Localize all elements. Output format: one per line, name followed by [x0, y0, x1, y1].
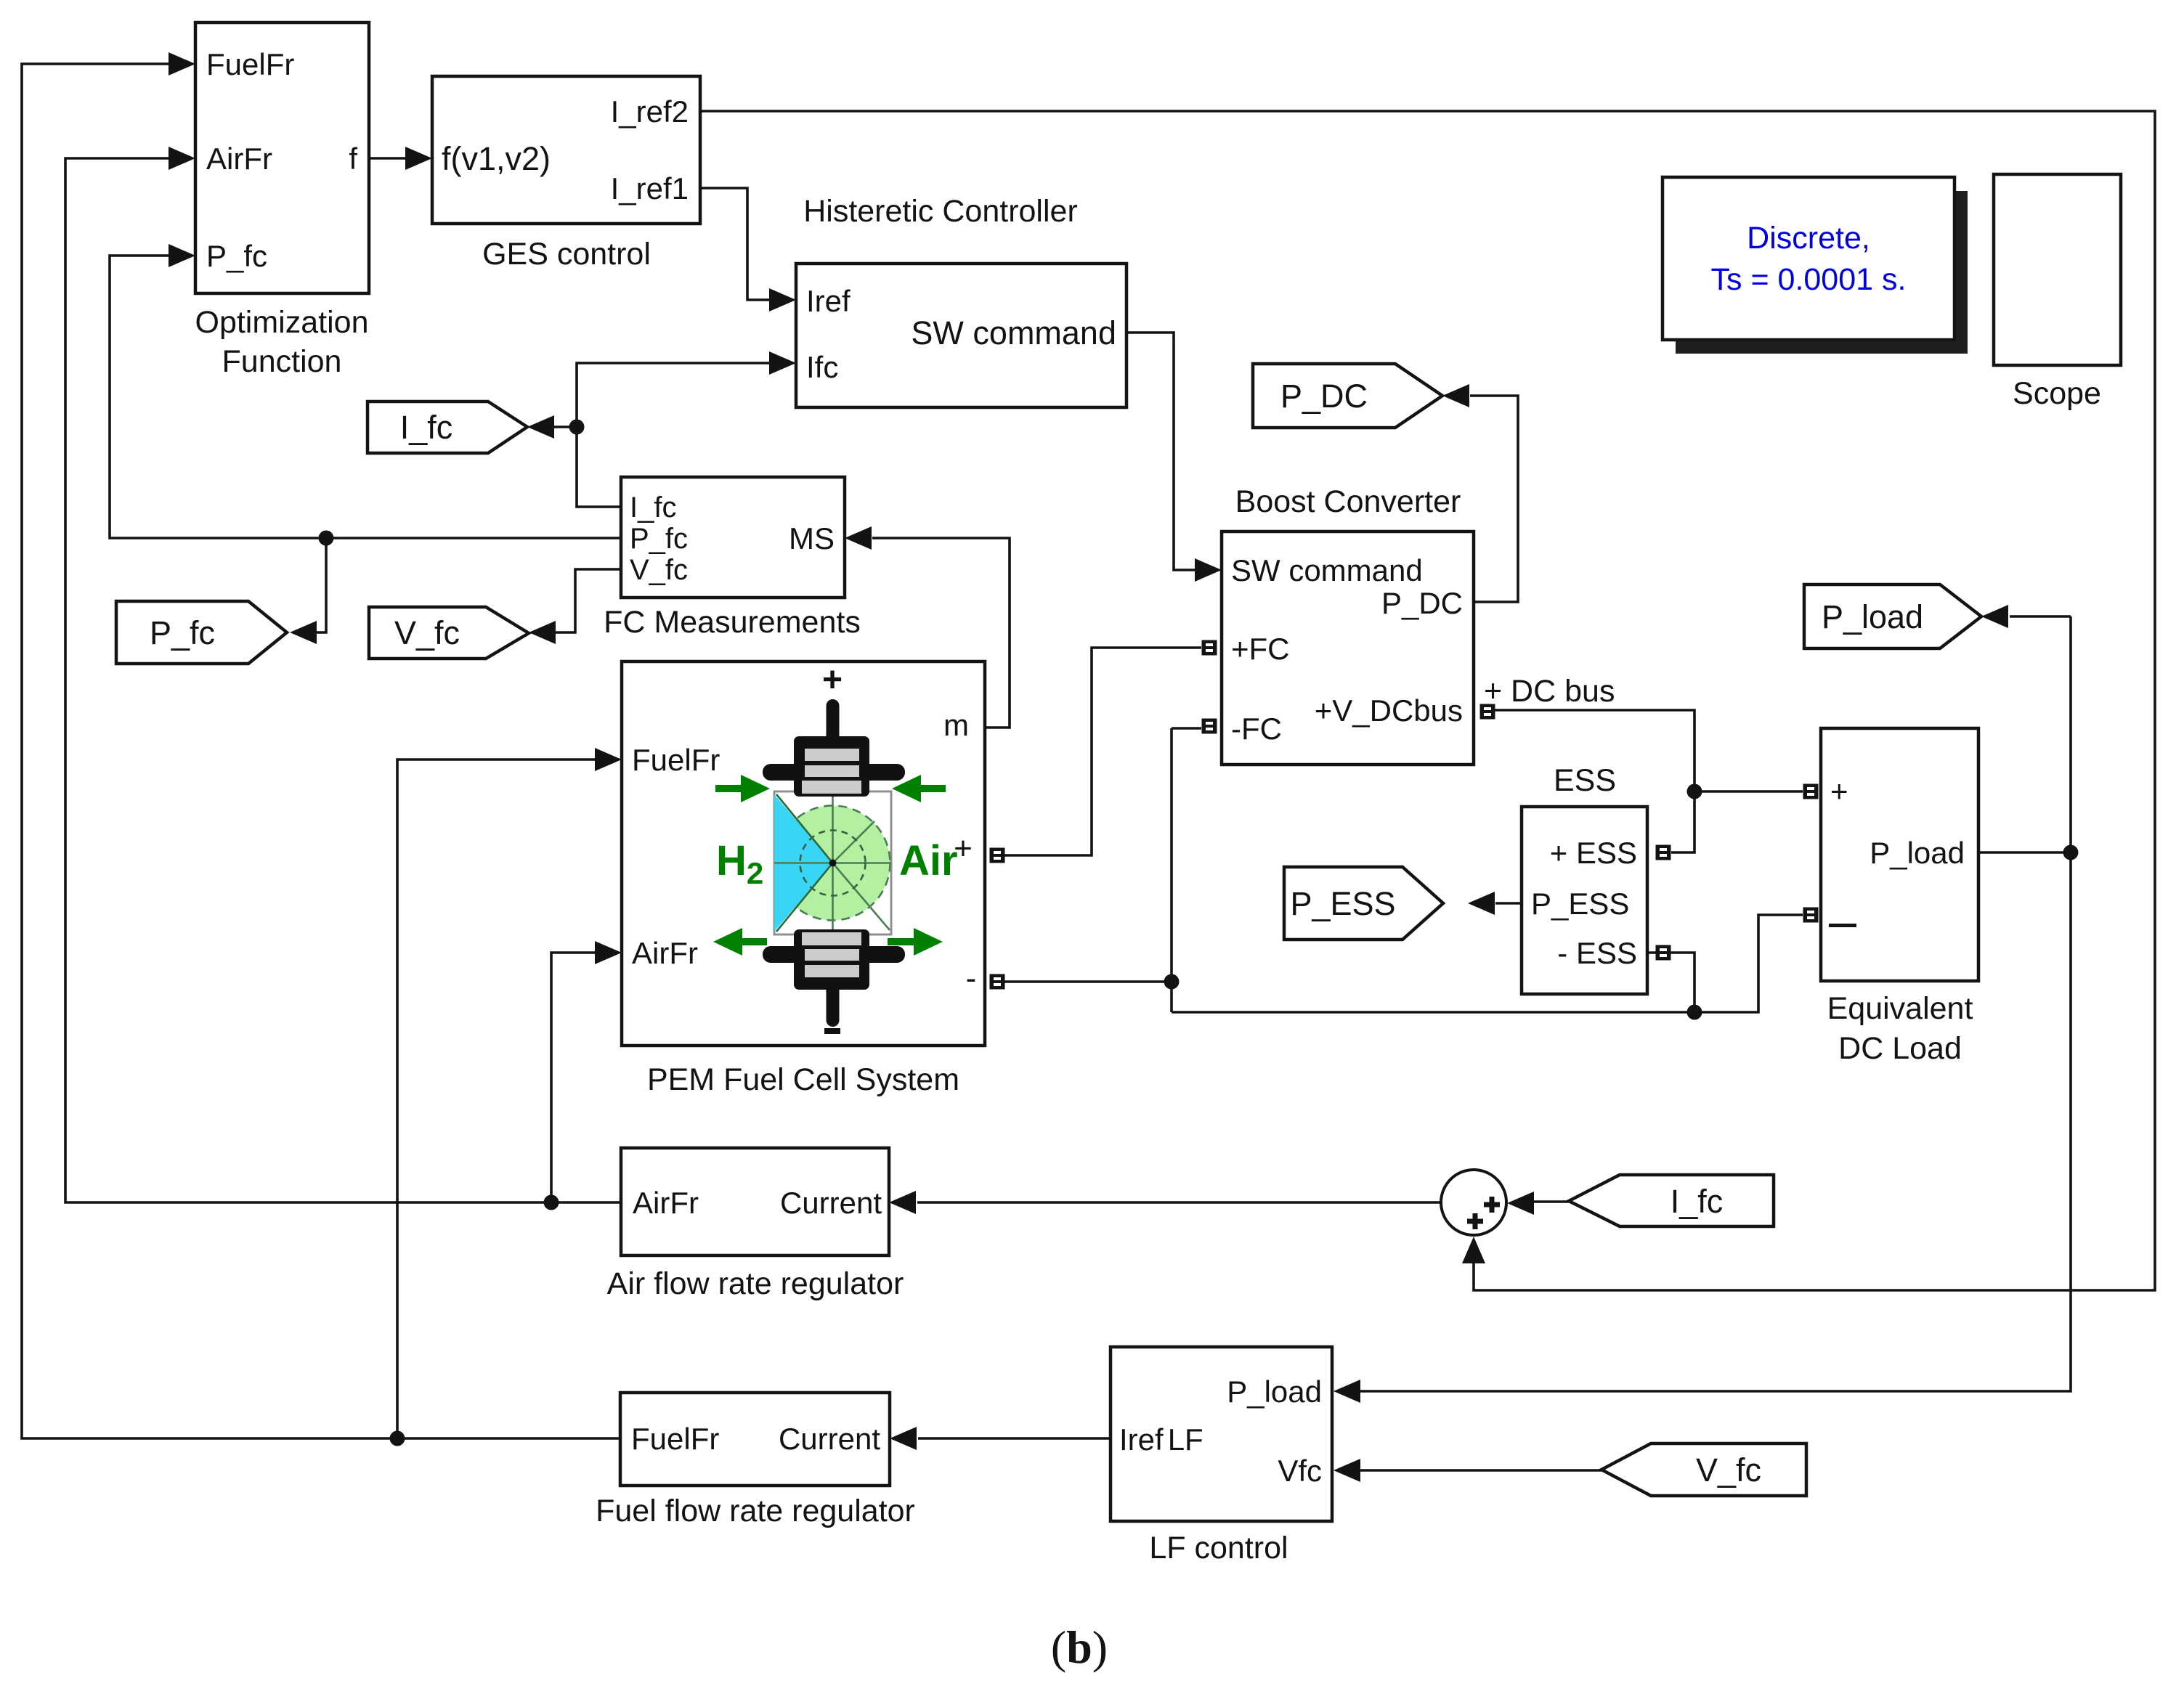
svg-text:+ DC bus: + DC bus — [1484, 674, 1615, 709]
svg-text:Current: Current — [780, 1186, 882, 1220]
svg-text:Equivalent: Equivalent — [1827, 991, 1973, 1026]
svg-text:LF control: LF control — [1149, 1531, 1288, 1565]
svg-text:IrefLF: IrefLF — [1119, 1422, 1203, 1457]
svg-text:P_load: P_load — [1870, 836, 1965, 870]
svg-text:FuelFr: FuelFr — [206, 47, 294, 81]
svg-text:P_load: P_load — [1822, 598, 1923, 635]
svg-text:P_fc: P_fc — [150, 614, 215, 651]
svg-text:Ts = 0.0001 s.: Ts = 0.0001 s. — [1711, 262, 1907, 297]
svg-text:Current: Current — [779, 1422, 880, 1456]
svg-text:FC Measurements: FC Measurements — [604, 605, 861, 640]
svg-text:ESS: ESS — [1554, 763, 1616, 798]
svg-text:Fuel flow rate regulator: Fuel flow rate regulator — [596, 1494, 915, 1528]
svg-text:+ ESS: + ESS — [1550, 836, 1637, 870]
svg-text:V_fc: V_fc — [1696, 1451, 1761, 1489]
svg-text:PEM Fuel Cell System: PEM Fuel Cell System — [647, 1062, 959, 1097]
svg-text:Air flow rate regulator: Air flow rate regulator — [607, 1266, 904, 1301]
svg-text:I_fc: I_fc — [400, 409, 453, 446]
svg-text:I_fc: I_fc — [1671, 1183, 1724, 1220]
svg-text:Scope: Scope — [2013, 376, 2101, 411]
svg-text:GES control: GES control — [482, 237, 651, 272]
svg-text:P_ESS: P_ESS — [1531, 887, 1629, 921]
svg-text:+: + — [1830, 774, 1848, 808]
svg-text:I_ref2: I_ref2 — [611, 94, 689, 129]
svg-text:Ifc: Ifc — [806, 350, 838, 384]
svg-text:SW command: SW command — [1231, 553, 1423, 587]
svg-text:I_fc: I_fc — [630, 492, 676, 524]
svg-text:Air: Air — [899, 837, 958, 884]
svg-text:AirFr: AirFr — [632, 936, 698, 970]
svg-text:+FC: +FC — [1231, 632, 1290, 666]
svg-text:P_fc: P_fc — [206, 239, 267, 273]
svg-text:Histeretic Controller: Histeretic Controller — [803, 194, 1078, 229]
svg-text:Iref: Iref — [806, 284, 851, 318]
svg-text:-FC: -FC — [1231, 712, 1282, 746]
svg-text:-: - — [966, 961, 977, 996]
svg-text:- ESS: - ESS — [1557, 936, 1637, 970]
svg-text:P_load: P_load — [1227, 1375, 1322, 1409]
svg-text:P_DC: P_DC — [1280, 378, 1368, 415]
svg-text:+: + — [822, 661, 843, 699]
svg-text:P_fc: P_fc — [630, 523, 688, 555]
svg-text:V_fc: V_fc — [394, 614, 460, 651]
svg-text:Optimization: Optimization — [195, 305, 369, 340]
svg-text:Discrete,: Discrete, — [1747, 221, 1870, 256]
svg-text:V_fc: V_fc — [630, 554, 688, 586]
svg-text:m: m — [943, 708, 969, 742]
svg-text:Boost Converter: Boost Converter — [1235, 484, 1461, 519]
svg-text:(b): (b) — [1051, 1621, 1108, 1673]
svg-text:I_ref1: I_ref1 — [611, 171, 689, 205]
svg-text:AirFr: AirFr — [633, 1186, 699, 1220]
svg-text:f(v1,v2): f(v1,v2) — [442, 140, 551, 177]
svg-text:AirFr: AirFr — [206, 142, 272, 176]
svg-text:+V_DCbus: +V_DCbus — [1315, 693, 1463, 728]
svg-text:Function: Function — [222, 344, 342, 379]
svg-text:FuelFr: FuelFr — [631, 1422, 719, 1456]
svg-text:P_ESS: P_ESS — [1290, 885, 1395, 922]
svg-text:FuelFr: FuelFr — [632, 743, 720, 777]
svg-text:SW command: SW command — [911, 314, 1116, 351]
svg-text:Vfc: Vfc — [1278, 1454, 1322, 1488]
svg-text:DC Load: DC Load — [1838, 1031, 1962, 1066]
svg-text:f: f — [349, 142, 357, 176]
svg-text:P_DC: P_DC — [1381, 586, 1463, 620]
svg-text:MS: MS — [789, 521, 835, 555]
